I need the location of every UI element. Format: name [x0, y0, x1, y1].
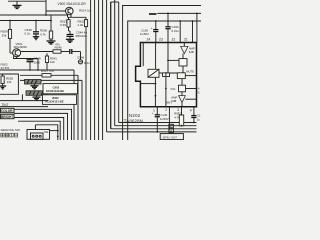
- amp triangle top: [181, 43, 195, 54]
- capacitor C145 pin1: [152, 107, 169, 133]
- amp triangle bottom: [171, 92, 196, 107]
- op-amp U1 IC N202 TA8628N outline: [136, 43, 197, 107]
- pin numbers bottom: [153, 108, 192, 113]
- label chinese glyphs: [1, 133, 18, 137]
- connector box CN02: [43, 84, 78, 94]
- block small: [163, 73, 170, 77]
- svg-text:SP31 OUT: SP31 OUT: [163, 135, 178, 139]
- potentiometer block 2: [26, 91, 47, 100]
- block T1: [167, 43, 187, 74]
- svg-text:1u: 1u: [197, 117, 201, 121]
- svg-text:13k: 13k: [7, 80, 12, 84]
- resistor R582 pin3: [174, 107, 184, 127]
- svg-text:COLOR: COLOR: [1, 109, 13, 113]
- svg-text:MB V: MB V: [166, 101, 172, 104]
- svg-text:V500 2SA1015-GR: V500 2SA1015-GR: [58, 2, 87, 6]
- transistor V501: [13, 42, 38, 70]
- ground: [13, 1, 22, 8]
- label BRIGHT box: [1, 114, 15, 119]
- svg-text:S01: S01: [44, 130, 49, 134]
- svg-text:1.0k: 1.0k: [78, 23, 84, 27]
- resistor R527: [20, 69, 78, 140]
- svg-text:VOL: VOL: [170, 87, 176, 91]
- svg-text:BRIGHT: BRIGHT: [1, 115, 13, 119]
- wire box stub: [21, 94, 23, 100]
- block MUTE: [177, 70, 196, 79]
- capacitor C548: [27, 56, 42, 70]
- capacitor C159 pin24 wire: [140, 20, 159, 69]
- svg-text:0.39: 0.39: [60, 23, 66, 27]
- potentiometer block 1: [25, 80, 42, 89]
- wire box edge: [0, 0, 46, 15]
- svg-text:0.01u: 0.01u: [172, 29, 180, 33]
- capacitor C545: [70, 49, 81, 54]
- node flags: [169, 124, 174, 133]
- pin numbers top: [147, 37, 188, 41]
- node: [9, 20, 11, 22]
- svg-text:N202: N202: [129, 113, 141, 118]
- resistor R501: [78, 17, 88, 27]
- svg-text:1u/50V: 1u/50V: [140, 32, 149, 36]
- wire row corner 4: [18, 121, 60, 140]
- capacitor pin4: [191, 107, 201, 124]
- svg-text:47k: 47k: [55, 42, 60, 46]
- svg-text:33k: 33k: [2, 33, 7, 37]
- svg-text:6dB: 6dB: [189, 50, 194, 54]
- svg-text:23: 23: [159, 37, 163, 41]
- svg-text:2: 2: [165, 108, 167, 112]
- wire row corner 2: [14, 113, 68, 140]
- node: [50, 20, 52, 22]
- wire inner vertical 155.4: [140, 77, 156, 106]
- svg-text:KC934121-BE: KC934121-BE: [46, 100, 64, 104]
- label N202 TA8628N: [124, 113, 143, 123]
- transistor V500: [46, 2, 86, 17]
- wire pin21: [192, 20, 194, 42]
- resistor R506: [40, 21, 56, 45]
- svg-text:1u/50V: 1u/50V: [160, 117, 169, 121]
- svg-text:R514 1k: R514 1k: [79, 9, 91, 13]
- svg-text:24: 24: [147, 37, 151, 41]
- svg-text:1000: 1000: [34, 60, 41, 64]
- bus wires vertical: [86, 0, 119, 140]
- svg-text:MUTE: MUTE: [186, 70, 194, 74]
- svg-text:4.7k: 4.7k: [40, 32, 46, 36]
- label SP OUT: [160, 134, 183, 140]
- wire inner vertical 143: [142, 43, 144, 67]
- capacitor C544: [66, 31, 88, 43]
- svg-text:M: M: [170, 129, 172, 133]
- node: [35, 20, 37, 22]
- wire pin2: [169, 107, 171, 130]
- svg-text:4: 4: [190, 108, 192, 112]
- wire corner B: [128, 21, 201, 140]
- resistor R546: [53, 42, 69, 53]
- wire: [0, 15, 51, 21]
- wire rail y70: [0, 69, 74, 71]
- wire pin22: [179, 20, 181, 42]
- wire top bar: [149, 13, 201, 15]
- label right edge: [198, 87, 200, 95]
- resistor R541: [45, 53, 57, 70]
- wire rail y80.4: [20, 79, 82, 81]
- svg-text:22: 22: [172, 37, 176, 41]
- svg-text:0.1u: 0.1u: [84, 61, 90, 65]
- wire rail y51.5: [21, 51, 53, 53]
- svg-text:0.2u: 0.2u: [25, 32, 31, 36]
- svg-text:+: +: [152, 111, 154, 115]
- svg-text:S: S: [198, 91, 200, 95]
- svg-text:4.7k: 4.7k: [174, 115, 180, 119]
- svg-text:N: N: [170, 124, 172, 128]
- wire to IC corner: [196, 13, 198, 42]
- svg-text:+: +: [151, 26, 153, 30]
- resistor R508: [1, 21, 13, 54]
- wire corner A: [123, 6, 201, 141]
- capacitor C160 pin23 wire: [165, 13, 179, 42]
- wire row y100.6: [0, 100, 48, 102]
- wire row corner 5: [35, 125, 57, 140]
- wire row corner 3: [14, 118, 64, 141]
- svg-text:21: 21: [184, 37, 188, 41]
- resistor R555: [0, 74, 14, 89]
- capacitor C546: [77, 52, 90, 65]
- wire top rail: [8, 0, 46, 2]
- wire inner vertical 165.9: [165, 73, 167, 107]
- wire corner x74: [73, 70, 75, 140]
- svg-text:R527 47k: R527 47k: [41, 69, 54, 73]
- wire row corner 1: [14, 109, 72, 140]
- box R555 enclosure: [0, 74, 18, 94]
- connector box 2N02: [43, 95, 77, 105]
- capacitor C539: [25, 21, 40, 40]
- switch S01: [27, 125, 59, 140]
- mixer box: [148, 69, 184, 77]
- bottom bus corners: [107, 123, 197, 132]
- svg-text:10k: 10k: [50, 60, 55, 64]
- svg-text:C546: C546: [77, 56, 85, 60]
- label COLOR box: [1, 108, 15, 113]
- resistor R507: [60, 17, 70, 31]
- svg-text:SERVICE SW: SERVICE SW: [1, 128, 20, 132]
- block VOL: [170, 79, 196, 92]
- wire TINT row: [0, 106, 48, 108]
- svg-text:KC934132-BE: KC934132-BE: [46, 89, 64, 93]
